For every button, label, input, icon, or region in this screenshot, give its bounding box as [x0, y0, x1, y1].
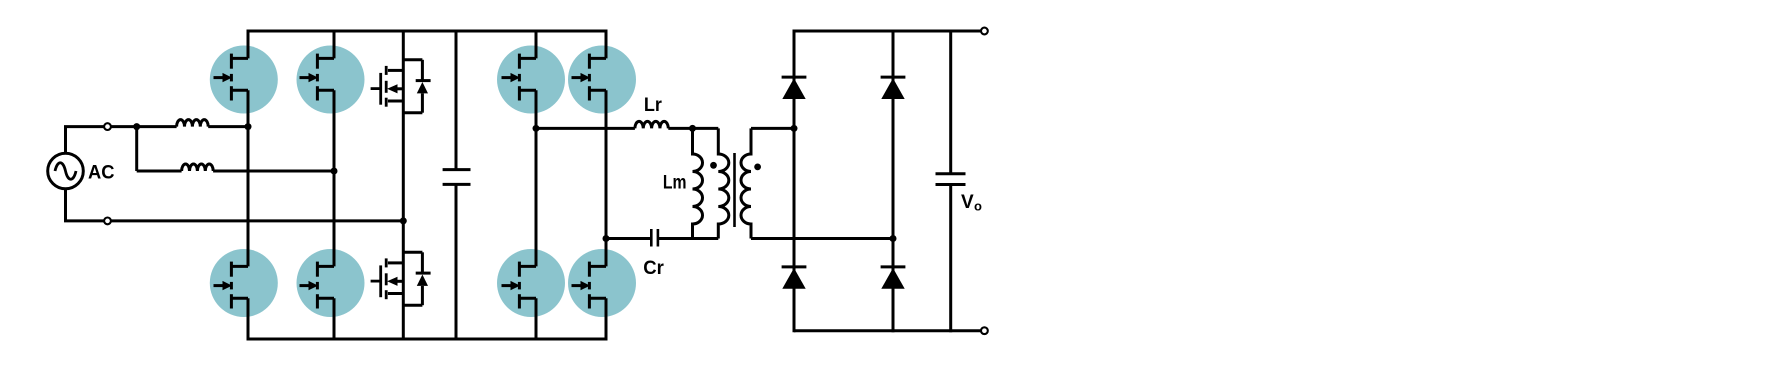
wire AC bottom line to leg3 — [64, 219, 403, 222]
svg-text:AC: AC — [88, 162, 115, 183]
highlight circle Q1 (leg1 top) — [210, 46, 278, 114]
AC source V1 — [48, 153, 84, 189]
highlight circle Q2 (leg1 bottom) — [210, 249, 278, 317]
junction node: leg5 midpoint — [603, 235, 610, 242]
wire DC-link capacitor leg verticals — [455, 30, 458, 341]
diode D3 (left bottom) — [782, 267, 807, 289]
highlight circle Q10 (leg5 bottom) — [568, 249, 636, 317]
junction node: leg2 midpoint — [331, 168, 338, 175]
junction node: leg1 midpoint — [245, 123, 252, 130]
wire leg1 verticals — [247, 30, 250, 341]
MOSFET Q1 (leg1 top) — [214, 54, 249, 101]
MOSFET Q5 with body diode (leg3 top) — [371, 60, 431, 113]
MOSFET Q9 (leg5 top) — [572, 54, 607, 101]
inductor L2 (bottom boost inductor) — [182, 164, 214, 171]
inductor Lm (magnetizing) — [693, 128, 703, 238]
polarity dot secondary — [754, 164, 761, 171]
junction node: leg3 midpoint — [400, 217, 407, 224]
highlight circle Q4 (leg2 bottom) — [297, 249, 365, 317]
terminal: AC input top — [104, 123, 111, 130]
MOSFET Q2 (leg1 bottom) — [214, 262, 249, 309]
wire LLC mid-bottom line leg5 to transformer — [606, 237, 718, 240]
wire output capacitor leg — [949, 30, 952, 333]
transformer T1 core — [733, 153, 736, 227]
svg-text:Lr: Lr — [644, 95, 663, 116]
highlight circle Q3 (leg2 top) — [297, 46, 365, 114]
highlight circle Q9 (leg5 top) — [568, 46, 636, 114]
transformer T1 secondary winding — [741, 128, 751, 238]
wire leg5 verticals — [605, 30, 608, 341]
wire leg2 verticals — [333, 30, 336, 341]
wire AC source bottom vertical — [64, 189, 67, 221]
terminal: output plus — [981, 28, 988, 35]
wire LLC mid-top line leg4 to transformer — [536, 127, 718, 130]
svg-text:Lm: Lm — [663, 173, 687, 194]
terminal: AC input bottom — [104, 218, 111, 225]
svg-text:Cr: Cr — [643, 258, 664, 279]
MOSFET Q8 (leg4 bottom) — [502, 262, 537, 309]
MOSFET Q6 with body diode (leg3 bottom) — [371, 252, 431, 305]
inductor Lr — [635, 121, 668, 128]
wire AC mid line to leg2 — [137, 170, 334, 173]
polarity dot primary — [710, 162, 717, 169]
wire rectifier bottom rail — [794, 329, 981, 332]
wire bottom DC rail — [248, 338, 607, 341]
capacitor C1 (DC link) — [443, 170, 471, 185]
diode D4 (right bottom) — [881, 267, 906, 289]
junction node: Lr to Lm — [689, 125, 696, 132]
wire leg4 verticals — [535, 30, 538, 341]
wire AC source top vertical — [64, 127, 67, 154]
svg-text:o: o — [974, 199, 982, 214]
junction node: leg4 midpoint — [533, 125, 540, 132]
wire AC top line to leg1 — [64, 125, 248, 128]
highlight circle Q8 (leg4 bottom) — [497, 249, 565, 317]
wire secondary bottom to rectifier — [751, 237, 893, 240]
wire rectifier top rail — [794, 30, 981, 33]
wire rectifier right leg — [892, 30, 895, 333]
inductor L1 (top boost inductor) — [177, 120, 209, 127]
wire junction drop to second inductor — [135, 127, 138, 171]
junction node: rectifier right leg — [890, 235, 897, 242]
transformer T1 primary winding — [718, 128, 729, 238]
wire secondary top to rectifier — [751, 127, 794, 130]
terminal: output minus — [981, 327, 988, 334]
MOSFET Q10 (leg5 bottom) — [572, 262, 607, 309]
MOSFET Q7 (leg4 top) — [502, 54, 537, 101]
diode D1 (left top) — [782, 77, 807, 99]
svg-text:V: V — [961, 192, 974, 213]
wire rectifier left leg — [793, 30, 796, 333]
capacitor Cr — [651, 229, 658, 247]
wire leg3 vertical — [402, 30, 405, 341]
capacitor Co (output) — [936, 174, 966, 185]
MOSFET Q4 (leg2 bottom) — [300, 262, 335, 309]
diode D2 (right top) — [881, 77, 906, 99]
highlight circle Q7 (leg4 top) — [497, 46, 565, 114]
wire top DC rail — [248, 30, 606, 33]
junction node: rectifier left leg — [791, 125, 798, 132]
MOSFET Q3 (leg2 top) — [300, 54, 335, 101]
junction node: AC top split — [133, 123, 140, 130]
